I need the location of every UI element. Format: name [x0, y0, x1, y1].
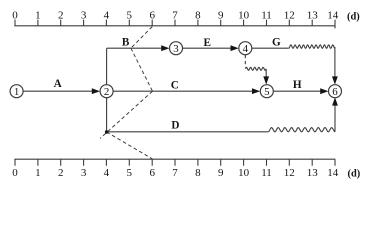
wire: activity A line 1-2	[22, 90, 95, 92]
arrowhead of H at node 6	[320, 88, 328, 94]
svg-text:5: 5	[127, 167, 133, 179]
svg-text:3: 3	[81, 167, 87, 179]
svg-text:8: 8	[195, 167, 201, 179]
svg-text:(d): (d)	[348, 169, 361, 180]
svg-text:H: H	[293, 79, 302, 91]
front line: start of D to bottom ruler day 6	[107, 132, 153, 159]
svg-text:10: 10	[238, 167, 250, 179]
front line: top ruler day 6 to point on B	[131, 27, 152, 49]
node 3	[170, 42, 183, 55]
svg-text:0: 0	[12, 167, 18, 179]
svg-text:1: 1	[35, 10, 41, 22]
svg-text:1: 1	[14, 86, 19, 98]
svg-text:11: 11	[261, 10, 272, 22]
svg-text:B: B	[122, 36, 130, 48]
wire: G drop into node 6	[334, 47, 336, 78]
svg-text:G: G	[272, 37, 281, 49]
svg-text:3: 3	[173, 43, 179, 55]
node 6	[329, 85, 342, 98]
svg-text:D: D	[171, 120, 179, 132]
svg-text:E: E	[203, 37, 210, 49]
bottom ruler line	[14, 158, 335, 160]
svg-text:1: 1	[35, 167, 41, 179]
wire: activity G line from node 4	[252, 47, 289, 49]
svg-text:5: 5	[264, 86, 270, 98]
svg-text:11: 11	[261, 167, 272, 179]
wire: dummy 4-5 drop into node 5	[265, 69, 267, 79]
svg-text:6: 6	[332, 86, 338, 98]
svg-text:(d): (d)	[347, 11, 360, 22]
svg-text:C: C	[171, 80, 179, 92]
arrowhead of C at node 5	[252, 88, 260, 94]
top ruler line	[14, 25, 335, 27]
svg-text:10: 10	[238, 10, 250, 22]
node 5	[260, 85, 273, 98]
svg-text:A: A	[54, 78, 62, 90]
node 1	[10, 85, 23, 98]
svg-text:7: 7	[172, 10, 178, 22]
arrowhead of D at node 6 bottom	[332, 97, 338, 105]
svg-text:6: 6	[149, 10, 155, 22]
svg-text:2: 2	[58, 167, 64, 179]
wire: activity B riser from node 2	[106, 48, 108, 85]
svg-text:8: 8	[195, 10, 201, 22]
front line: point on B to point on C	[131, 48, 153, 91]
wire: activity C line 2-5	[113, 90, 255, 92]
wavy float of G	[289, 45, 335, 48]
arrowhead of E at node 4	[231, 45, 239, 51]
wavy float of dummy 4-5	[245, 67, 266, 70]
arrowhead of G at node 6 top	[332, 76, 338, 84]
top ruler ticks	[15, 20, 335, 29]
svg-text:4: 4	[104, 10, 110, 22]
svg-text:6: 6	[149, 167, 155, 179]
svg-text:5: 5	[127, 10, 133, 22]
bottom ruler ticks	[15, 159, 335, 166]
svg-text:12: 12	[284, 167, 295, 179]
arrowhead of B at node 3	[161, 45, 169, 51]
svg-text:13: 13	[307, 167, 319, 179]
svg-text:9: 9	[218, 167, 224, 179]
svg-text:14: 14	[327, 10, 339, 22]
svg-text:13: 13	[307, 10, 319, 22]
wire: activity B line to node 3	[107, 47, 164, 49]
svg-text:9: 9	[218, 10, 224, 22]
front line: point on C to start of D	[100, 91, 152, 138]
svg-text:2: 2	[58, 10, 64, 22]
svg-text:14: 14	[327, 167, 339, 179]
svg-text:7: 7	[172, 167, 178, 179]
wavy float of D	[268, 128, 335, 132]
wire: activity H line 5-6	[273, 90, 322, 92]
svg-text:4: 4	[104, 167, 110, 179]
svg-text:12: 12	[284, 10, 295, 22]
wire: activity E line 3-4	[182, 47, 232, 49]
svg-text:3: 3	[81, 10, 87, 22]
arrowhead of A at node 2	[92, 88, 100, 94]
arrowhead of dummy at node 5 top	[263, 76, 269, 84]
wire: activity D line	[107, 131, 269, 133]
node 2	[100, 85, 113, 98]
svg-text:4: 4	[243, 43, 249, 55]
wire: dummy 4-5 dashed drop	[244, 55, 246, 67]
svg-text:2: 2	[104, 86, 109, 98]
junction dot at start of D (front line vertex)	[105, 130, 108, 133]
wire: activity D drop from node 2	[106, 98, 108, 132]
node 4	[239, 42, 252, 55]
wire: D riser into node 6	[334, 104, 336, 132]
svg-text:0: 0	[12, 10, 18, 22]
